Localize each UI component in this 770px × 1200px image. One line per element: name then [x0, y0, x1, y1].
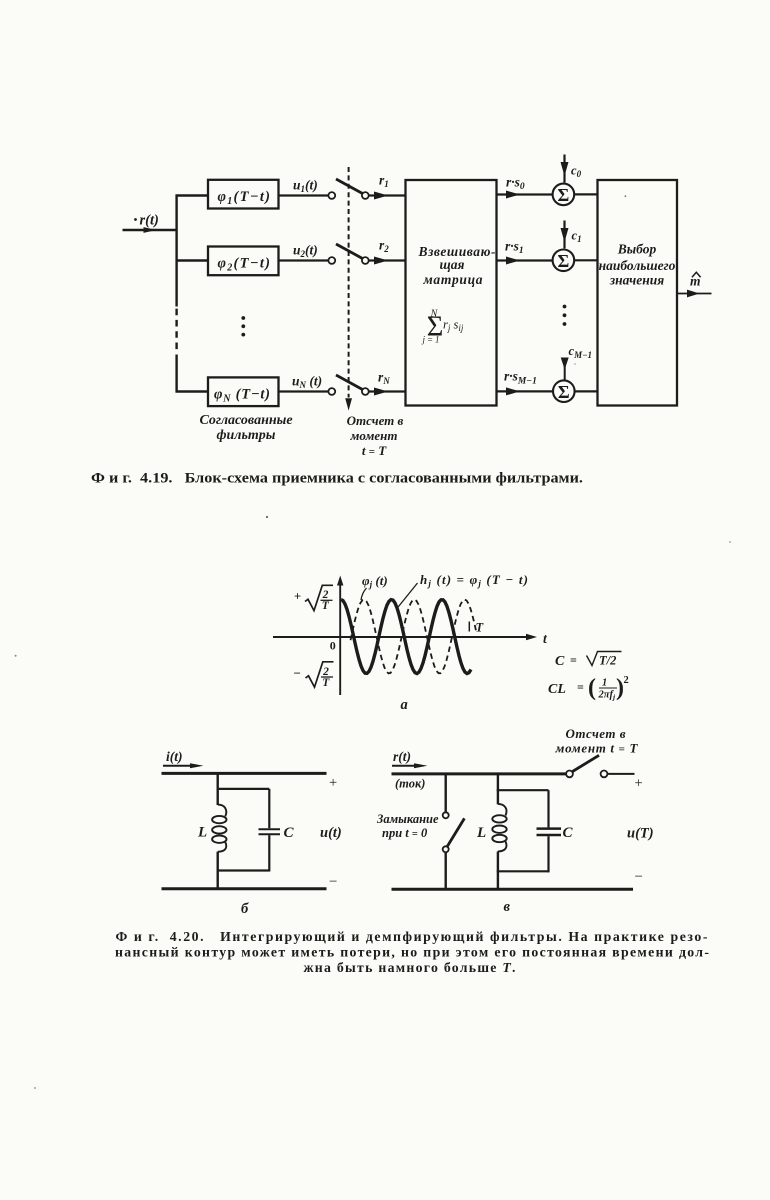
switch blade row N [336, 375, 363, 390]
label m-hat [690, 272, 701, 288]
svg-text:1: 1 [602, 678, 607, 689]
svg-text:φ2(T−t): φ2(T−t) [218, 256, 271, 274]
wire capacitor branch lower [268, 835, 270, 871]
svg-text:Отсчет в: Отсчет в [347, 413, 404, 428]
wire left branch lower [216, 852, 218, 890]
wire branch 1 [176, 194, 209, 196]
svg-text:u1(t): u1(t) [293, 178, 318, 195]
svg-text:Σ: Σ [558, 251, 570, 271]
wire contact to matrix row N [369, 390, 406, 392]
wire phiN output to contact [279, 390, 329, 392]
svg-text:а: а [401, 697, 408, 713]
label zamykanie [376, 812, 439, 840]
svg-text:r(t): r(t) [393, 749, 411, 764]
wire phi1 output to contact [279, 194, 329, 196]
svg-text:2: 2 [624, 675, 629, 686]
summer U4 row3 [553, 380, 575, 402]
svg-text:Отсчет в: Отсчет в [566, 726, 626, 741]
wire c0 into summer [563, 155, 565, 183]
wire capacitor branch upper v [547, 790, 549, 827]
svg-text:б: б [241, 901, 249, 917]
svg-text:+: + [329, 775, 337, 791]
svg-text:при t = 0: при t = 0 [382, 826, 428, 840]
switch blade top v [573, 755, 600, 771]
svg-text:N: N [430, 309, 439, 320]
wire output m-hat [677, 293, 712, 295]
node stray dot [266, 516, 268, 518]
summer U3 row2 [553, 249, 575, 271]
wire L branch lower v [497, 851, 499, 890]
svg-text:r(t): r(t) [140, 213, 159, 229]
svg-text:L: L [476, 825, 486, 841]
wire bus vertical solid upper [175, 195, 177, 307]
svg-text:+: + [294, 590, 301, 604]
wire left branch upper [216, 773, 218, 805]
svg-text:u2(t): u2(t) [293, 243, 318, 260]
wire matrix to sum2 [497, 259, 553, 261]
svg-text:C: C [555, 654, 565, 669]
wire shorting branch upper [445, 774, 447, 812]
wire after switch v [607, 773, 634, 775]
filter box phiN [208, 377, 279, 406]
curve hj solid [341, 600, 471, 674]
wire matrix to sum3 [497, 390, 553, 392]
svg-text:Ф и г. 4.20. Интегрирующий: Ф и г. 4.20. Интегрирующий и демпфирующи… [116, 929, 708, 944]
label matched filters [199, 413, 292, 443]
node contact circle 1a [328, 192, 335, 199]
svg-text:+: + [635, 776, 643, 792]
wire sum2 to selector [575, 259, 598, 261]
wire shorting branch lower [445, 852, 447, 890]
svg-text:значения: значения [609, 273, 664, 288]
wire bottom rail b [162, 887, 327, 890]
node contact circle 2b [362, 257, 369, 264]
svg-text:Σ: Σ [558, 382, 570, 402]
svg-text:Σ: Σ [558, 185, 570, 205]
svg-text:Замыкание: Замыкание [376, 812, 439, 826]
node contact circle 1b [362, 192, 369, 199]
svg-text:j=1: j=1 [422, 335, 440, 345]
svg-text:Согласованные: Согласованные [199, 413, 292, 428]
selector box U5 [598, 180, 678, 406]
svg-text:момент: момент [350, 428, 398, 443]
wire cM-1 into summer [564, 358, 566, 380]
svg-text:=: = [570, 653, 577, 667]
label +sqrt(2/T) [294, 585, 333, 612]
svg-text:φN (T−t): φN (T−t) [214, 387, 270, 405]
x axis t [273, 636, 530, 638]
wire bus vertical dashed middle [175, 309, 177, 351]
svg-text:в: в [504, 899, 511, 915]
svg-text:hj (t) = φj (T − t): hj (t) = φj (T − t) [420, 572, 528, 589]
wire contact to matrix row 2 [369, 259, 406, 261]
svg-text:CL: CL [548, 682, 566, 697]
wire top rail b [162, 772, 327, 775]
svg-text:−: − [329, 874, 337, 890]
node contact circle 2a [328, 257, 335, 264]
wire sum3 to selector [575, 390, 598, 392]
svg-text:T: T [322, 600, 330, 612]
wire inner loop top [217, 788, 270, 790]
summer U2 row1 [553, 184, 575, 206]
node T tick [468, 622, 470, 632]
wire matrix to sum1 [497, 193, 553, 195]
svg-text:матрица: матрица [423, 272, 483, 287]
svg-text:Выбор: Выбор [617, 242, 657, 257]
svg-text:T: T [322, 677, 330, 689]
svg-text:uN (t): uN (t) [292, 374, 322, 391]
caption Fig 4.20 [115, 929, 709, 975]
svg-text:L: L [197, 825, 207, 841]
wire branch 2 [176, 259, 209, 261]
label weighting matrix text [418, 244, 497, 287]
wire current arrow [163, 765, 194, 767]
wire top rail v [392, 772, 567, 775]
wire inner loop bottom [217, 869, 270, 871]
inductor L coil v [498, 804, 507, 816]
filter box phi1 [208, 180, 279, 209]
label sum formula in matrix box [422, 309, 464, 345]
svg-text:наибольшего: наибольшего [599, 258, 676, 273]
weighting matrix box U1 [406, 180, 497, 406]
svg-text:нансный контур может иметь пот: нансный контур может иметь потери, но пр… [115, 945, 709, 960]
label formula C = sqrt(T/2) [555, 652, 622, 670]
label sampling caption [347, 413, 404, 458]
node shorting contact upper [443, 812, 449, 818]
y axis [339, 582, 341, 695]
label formula CL = (1/2pifj)^2 [548, 675, 629, 702]
label -sqrt(2/T) [294, 662, 334, 689]
svg-text:щая: щая [440, 257, 465, 272]
inductor L coil [218, 805, 227, 817]
svg-text:(: ( [588, 675, 596, 701]
svg-text:i(t): i(t) [166, 749, 183, 764]
node r(t) input label [134, 213, 159, 229]
wire phi2 output to contact [279, 259, 329, 261]
label sampling caption v [555, 726, 639, 756]
node contact circle Nb [362, 388, 369, 395]
node switch contact v1 [566, 771, 573, 778]
svg-text:жна быть намного больше Т.: жна быть намного больше Т. [304, 960, 516, 975]
node vertical dots between phi2 and phiN [241, 316, 245, 336]
filter box phi2 [208, 247, 279, 276]
switch blade shorting [447, 818, 464, 846]
node shorting contact lower [443, 846, 449, 852]
capacitor C plates v [537, 827, 562, 830]
svg-text:−: − [635, 869, 643, 885]
svg-text:u(T): u(T) [627, 826, 654, 842]
svg-text:фильтры: фильтры [217, 428, 276, 443]
wire c1 into summer [563, 221, 565, 249]
wire contact to matrix row 1 [369, 194, 406, 196]
svg-text:(ток): (ток) [395, 777, 425, 791]
wire L branch upper v [497, 774, 499, 804]
node contact circle Na [328, 388, 335, 395]
wire inner loop top v [497, 789, 549, 791]
wire sum1 to selector [575, 193, 598, 195]
wire input arrow into bus [123, 229, 177, 232]
node vertical dots between summers [563, 305, 567, 326]
svg-text:0: 0 [330, 639, 336, 653]
switch blade row 2 [336, 244, 363, 259]
svg-text:=: = [577, 680, 584, 694]
curve phij dashed [351, 600, 477, 674]
svg-text:C: C [284, 825, 295, 841]
wire inner loop bottom v [497, 870, 549, 872]
wire branch N [176, 390, 209, 392]
wire capacitor branch upper [268, 789, 270, 828]
capacitor C plates [259, 828, 281, 830]
svg-text:φ1(T−t): φ1(T−t) [218, 189, 271, 207]
svg-text:−: − [294, 666, 301, 681]
node switch contact v2 [601, 771, 608, 778]
switch blade row 1 [336, 179, 363, 194]
label selector text [599, 242, 676, 288]
wire current arrow v [392, 765, 418, 767]
svg-text:t = T: t = T [362, 443, 387, 458]
svg-text:момент t = T: момент t = T [555, 741, 639, 756]
svg-text:Ф и г. 4.19. Блок-схема при: Ф и г. 4.19. Блок-схема приемника с согл… [91, 471, 583, 487]
svg-text:T/2: T/2 [599, 654, 616, 668]
wire capacitor branch lower v [547, 836, 549, 872]
wire bottom rail v [392, 888, 634, 891]
svg-text:u(t): u(t) [320, 825, 342, 841]
sampling dashed line [348, 167, 350, 398]
svg-text:C: C [563, 825, 574, 841]
wire bus vertical solid lower [175, 355, 177, 393]
svg-text:φj (t): φj (t) [362, 573, 388, 590]
